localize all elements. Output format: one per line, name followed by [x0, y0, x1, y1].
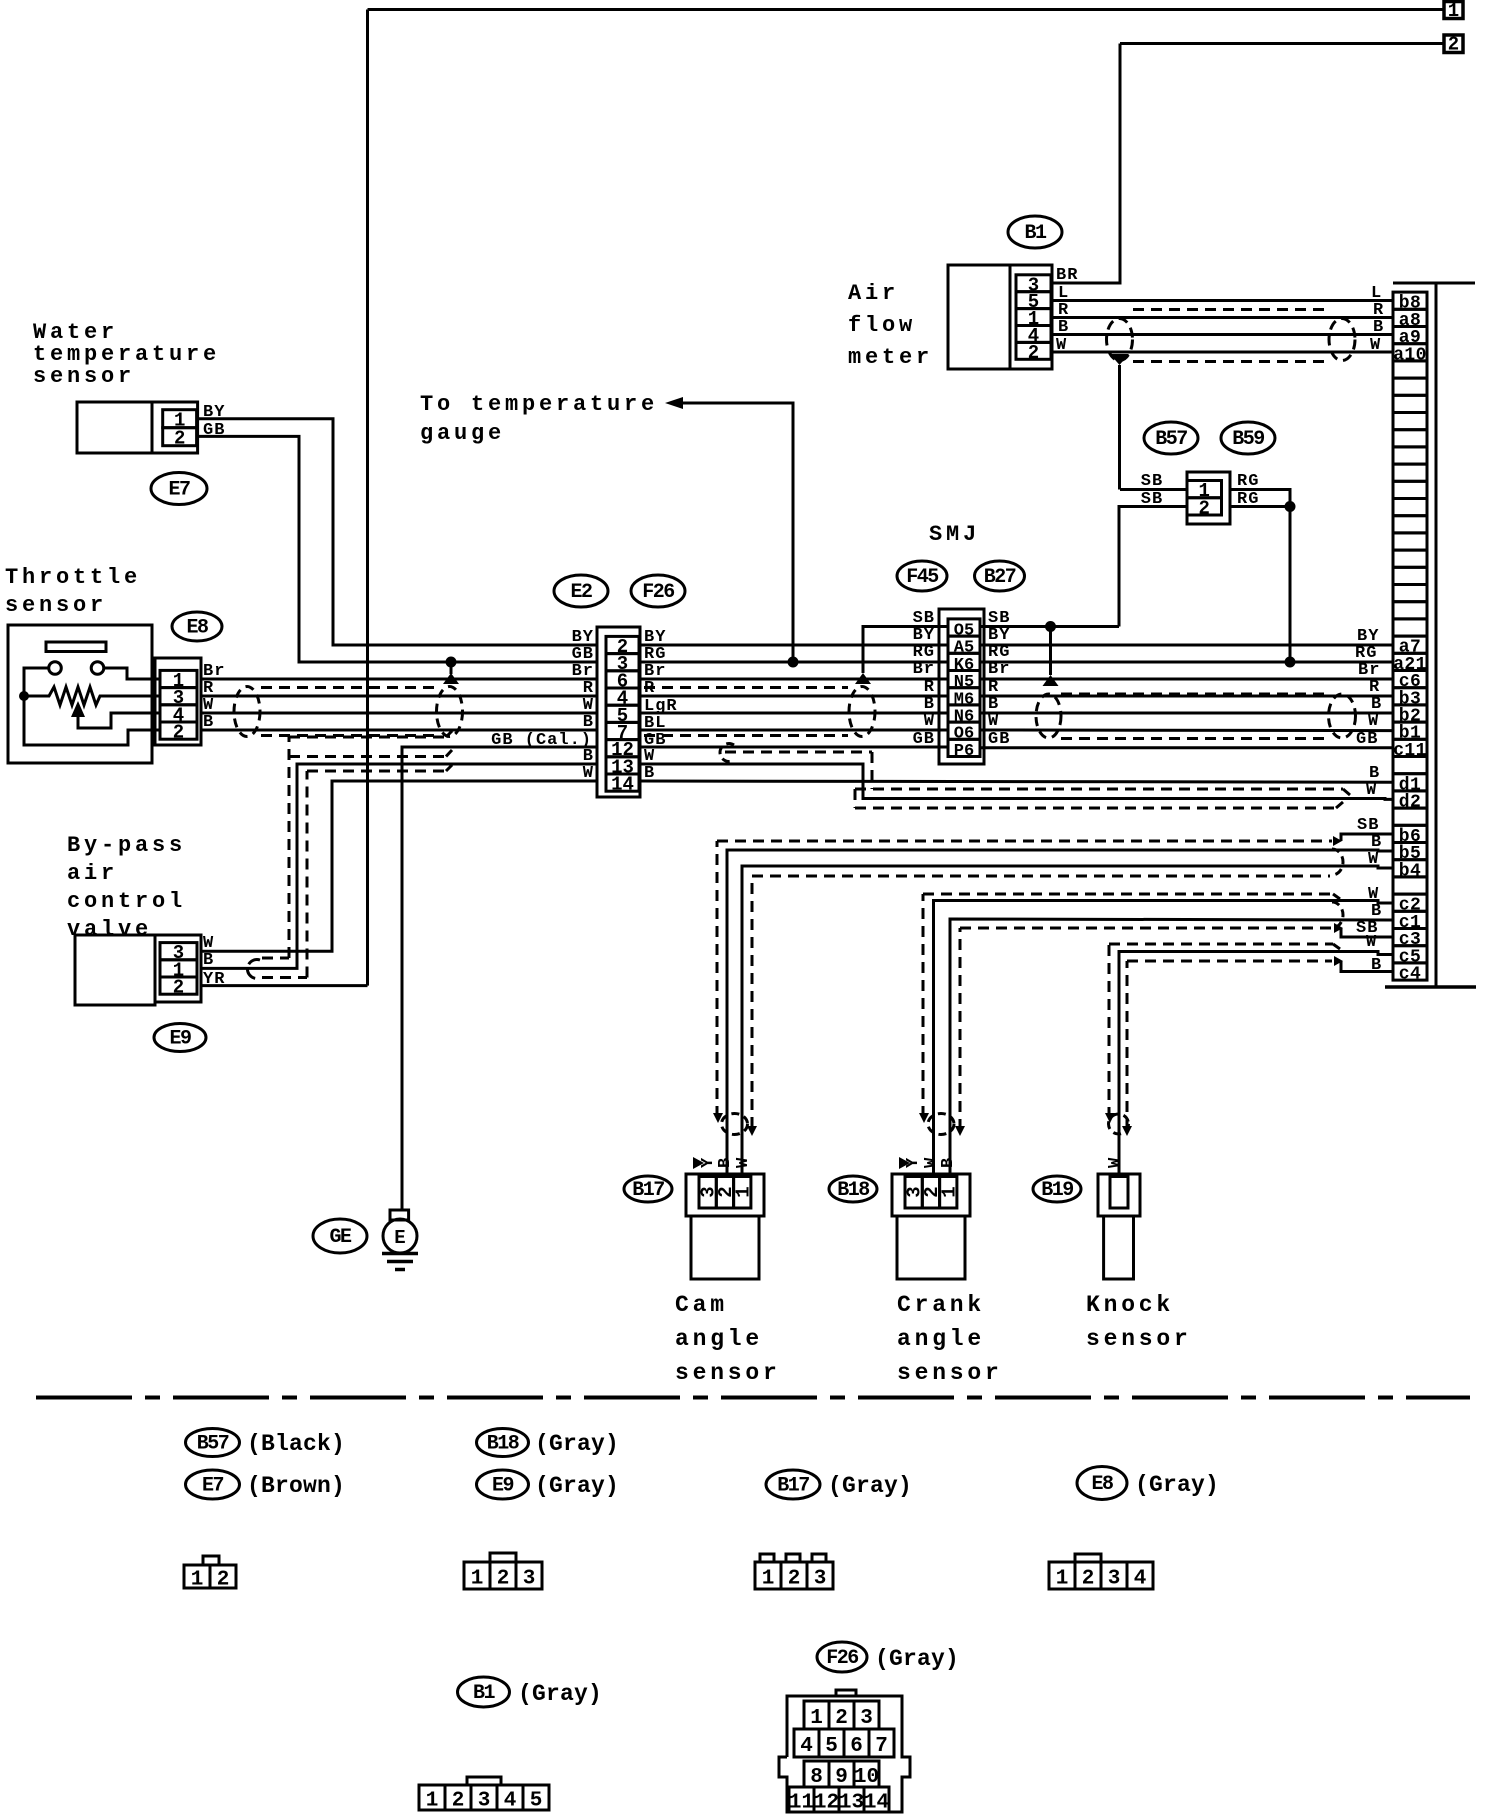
- svg-text:W: W: [1056, 336, 1067, 355]
- svg-text:BY: BY: [203, 403, 225, 422]
- svg-text:angle: angle: [675, 1326, 763, 1352]
- svg-text:(Gray): (Gray): [535, 1473, 619, 1499]
- svg-text:2: 2: [452, 1790, 465, 1813]
- wire BY E2 to SMJ A5: [640, 644, 948, 647]
- svg-text:1: 1: [810, 1707, 823, 1730]
- SMJ pins O5 A5 K6 N5 M6 N6 O6 P6: [948, 619, 980, 636]
- shield ellipse before E2: [437, 687, 463, 737]
- crank Y stub arrow: [899, 1157, 910, 1169]
- svg-text:sensor: sensor: [897, 1360, 1003, 1386]
- shield drain triangle and junction at GB: [446, 657, 457, 668]
- connector oval B59: [1221, 422, 1275, 454]
- SMJ right shield drain: [1049, 627, 1052, 676]
- shield arc at ECU end crank: [1332, 902, 1343, 928]
- svg-text:5: 5: [825, 1735, 838, 1758]
- shield dash cam sensor to ECU b6: [716, 841, 719, 1117]
- svg-text:W: W: [988, 712, 999, 731]
- svg-text:2: 2: [173, 977, 184, 999]
- connector oval F26: [631, 575, 685, 607]
- connector oval B57: [1144, 422, 1198, 454]
- svg-text:7: 7: [875, 1735, 888, 1758]
- wire B valve pin1 to E2 pin 13: [201, 764, 597, 968]
- svg-text:E9: E9: [492, 1475, 514, 1498]
- wire RG from joint pin 2: [1230, 505, 1290, 508]
- svg-text:Cam: Cam: [675, 1292, 728, 1318]
- wire RG SMJ to ECU a21: [980, 661, 1393, 664]
- cam Y stub arrow: [693, 1157, 704, 1169]
- legend connector B17 pins 1 2 3: [760, 1554, 774, 1562]
- svg-text:SMJ: SMJ: [929, 522, 980, 547]
- connector oval E8: [172, 612, 222, 641]
- svg-text:gauge: gauge: [420, 421, 505, 446]
- svg-text:W: W: [734, 1157, 753, 1168]
- legend connector E9 pins 1 2 3: [490, 1553, 516, 1562]
- svg-text:(Gray): (Gray): [1135, 1472, 1219, 1498]
- connector oval GE: [313, 1219, 367, 1253]
- shield arrow into c4: [1334, 956, 1343, 966]
- connector oval B18: [829, 1176, 877, 1202]
- wire Br throttle to E2 pin 6: [201, 678, 597, 681]
- cam angle sensor body: [691, 1216, 759, 1279]
- wire W throttle to E2 pin 5: [201, 712, 597, 715]
- svg-text:2: 2: [173, 722, 184, 744]
- svg-text:F26: F26: [826, 1647, 858, 1670]
- legend oval B17: [766, 1470, 820, 1499]
- svg-text:Crank: Crank: [897, 1292, 985, 1318]
- wire BR vertical (air flow meter pin 3 to line 2): [1052, 44, 1120, 284]
- separator line: [36, 1396, 1470, 1400]
- svg-text:2: 2: [788, 1568, 801, 1591]
- svg-text:2: 2: [1082, 1568, 1095, 1591]
- svg-text:3: 3: [814, 1568, 827, 1591]
- shield dashes around valve B wire: [262, 957, 289, 960]
- legend oval E8: [1077, 1467, 1127, 1500]
- svg-text:E8: E8: [1091, 1473, 1113, 1496]
- legend connector F26 grid: [779, 1696, 910, 1812]
- svg-text:W: W: [1370, 336, 1381, 355]
- legend oval E9: [477, 1470, 529, 1499]
- shield end ticks near E2: [446, 731, 452, 737]
- svg-text:3: 3: [478, 1790, 491, 1813]
- wire B E2 to SMJ N6: [640, 712, 948, 715]
- by-pass valve body: [75, 935, 155, 1005]
- shield dashes around valve W wire: [262, 976, 307, 979]
- svg-text:sensor: sensor: [33, 364, 135, 389]
- svg-text:3: 3: [1108, 1568, 1121, 1591]
- wire GB from water temp pin 2 to E2 pin 3: [198, 436, 597, 662]
- svg-text:Br: Br: [913, 660, 935, 679]
- svg-text:2: 2: [1448, 34, 1459, 56]
- svg-text:B18: B18: [487, 1433, 519, 1456]
- svg-text:A5: A5: [954, 639, 974, 658]
- wire W crank pin2 to ECU c2: [934, 901, 1394, 1177]
- svg-text:12: 12: [814, 1792, 839, 1814]
- svg-text:W: W: [1106, 1157, 1125, 1168]
- joint connector B57/B59 body: [1187, 472, 1230, 524]
- shield ellipse after SMJ: [1036, 694, 1061, 738]
- shield dash crank bottom to ECU c3 SB: [959, 928, 962, 1130]
- svg-text:(Gray): (Gray): [518, 1681, 602, 1707]
- svg-text:(Brown): (Brown): [247, 1473, 345, 1499]
- throttle sensor contact circles: [49, 662, 62, 675]
- ECU connector strip: [1393, 292, 1427, 309]
- svg-text:(Gray): (Gray): [535, 1431, 619, 1457]
- svg-text:GB: GB: [913, 730, 935, 749]
- wire RG E2 to SMJ K6: [640, 661, 948, 664]
- svg-text:B1: B1: [1024, 222, 1047, 245]
- knock sensor connector: [1098, 1174, 1140, 1216]
- svg-text:SB: SB: [1141, 472, 1163, 491]
- wire Br E2 to SMJ N5: [640, 678, 948, 681]
- svg-text:1: 1: [1448, 0, 1459, 22]
- svg-text:F26: F26: [642, 581, 674, 604]
- wire B cam pin2 to ECU b5: [727, 850, 1393, 1176]
- svg-text:RG: RG: [1237, 472, 1259, 491]
- svg-text:1: 1: [426, 1790, 439, 1813]
- svg-text:air: air: [67, 861, 118, 886]
- svg-text:1: 1: [732, 1186, 754, 1197]
- wire W E2 to SMJ O6: [640, 729, 948, 732]
- by-pass valve connector housing: [155, 935, 201, 1002]
- svg-text:W: W: [1368, 712, 1379, 731]
- svg-text:1: 1: [191, 1569, 204, 1592]
- terminal box 1: [1444, 2, 1463, 19]
- svg-text:sensor: sensor: [675, 1360, 781, 1386]
- wire R throttle to E2 pin 4: [201, 695, 597, 698]
- shield drain triangle to B57: [1110, 354, 1129, 365]
- SMJ connector body: [939, 609, 984, 764]
- wire L from pin 5 to ECU b8: [1052, 299, 1393, 302]
- svg-text:(Black): (Black): [247, 1431, 345, 1457]
- wire W cam pin1 to ECU b4: [742, 866, 1393, 1176]
- terminal box 2: [1444, 35, 1463, 53]
- shield dash knock bottom to ECU c4: [1126, 961, 1129, 1130]
- junction RG to a21 wire: [1285, 657, 1296, 668]
- svg-text:control: control: [67, 889, 186, 914]
- svg-text:1: 1: [471, 1568, 484, 1591]
- legend oval B1: [458, 1677, 510, 1707]
- svg-text:B: B: [939, 1157, 958, 1168]
- legend oval F26: [817, 1642, 867, 1672]
- shield arrow into b6: [1333, 836, 1342, 846]
- svg-text:E9: E9: [169, 1028, 191, 1051]
- shield ellipse before SMJ: [849, 687, 875, 737]
- water temperature sensor body: [77, 402, 198, 453]
- svg-text:E8: E8: [186, 617, 208, 640]
- svg-text:angle: angle: [897, 1326, 985, 1352]
- legend connector E8 pins 1 2 3 4: [1075, 1554, 1101, 1562]
- shield dashes E2 to SMJ: [644, 686, 848, 689]
- svg-text:E2: E2: [570, 581, 592, 604]
- connector E2/F26 pins: [606, 636, 639, 653]
- svg-text:1: 1: [1056, 1568, 1069, 1591]
- svg-text:E7: E7: [168, 479, 190, 502]
- svg-text:M6: M6: [954, 690, 974, 709]
- wire B SMJ to ECU b2: [980, 712, 1393, 715]
- legend oval B18: [477, 1429, 529, 1457]
- svg-text:sensor: sensor: [5, 593, 107, 618]
- svg-text:3: 3: [860, 1707, 873, 1730]
- svg-text:B: B: [1373, 318, 1384, 337]
- shield dashes SMJ to ECU: [1061, 693, 1330, 696]
- svg-text:B: B: [1369, 764, 1380, 783]
- wire BY from water temp pin 1 to E2 pin 2: [198, 419, 597, 645]
- legend connector B1 pins 1 2 3 4 5: [467, 1777, 501, 1785]
- throttle connector housing: [155, 658, 201, 745]
- connector oval B19: [1033, 1176, 1081, 1202]
- svg-text:B: B: [583, 713, 594, 732]
- wire GB E2 to SMJ P6: [640, 746, 948, 749]
- svg-text:11: 11: [789, 1792, 814, 1814]
- shield arrow into c3: [1334, 923, 1343, 933]
- wire SB to joint pin 1: [1120, 488, 1187, 491]
- throttle internal junction: [19, 691, 29, 701]
- junction RG pins: [1285, 501, 1296, 512]
- air flow meter body: [948, 265, 1052, 369]
- wire BY SMJ to ECU a7: [980, 644, 1393, 647]
- wire RG from joint pin 1: [1230, 490, 1290, 663]
- svg-text:E: E: [394, 1227, 405, 1249]
- svg-text:B57: B57: [1155, 428, 1187, 451]
- svg-text:4: 4: [504, 1790, 517, 1813]
- svg-text:B27: B27: [984, 566, 1016, 589]
- svg-text:E7: E7: [202, 1475, 224, 1498]
- crank angle sensor connector: [892, 1174, 970, 1216]
- wire B crank pin1 to ECU c1: [950, 919, 1393, 1176]
- svg-text:Knock: Knock: [1086, 1292, 1174, 1318]
- wire to connector 2 (line from air flow meter BR): [1120, 42, 1444, 45]
- water temperature sensor pins 1 2: [163, 410, 197, 428]
- throttle sensor body: [8, 625, 152, 763]
- crank shield arrows and ellipse: [919, 1113, 929, 1123]
- cam shield arrows and ellipse: [713, 1113, 723, 1123]
- svg-text:GE: GE: [329, 1226, 352, 1249]
- connector oval E9: [154, 1024, 206, 1052]
- ECU connector border: [1393, 282, 1475, 285]
- knock sensor body: [1104, 1216, 1134, 1279]
- svg-text:3: 3: [523, 1568, 536, 1591]
- wire to connector 1 (top line from by-pass valve YR): [368, 8, 1445, 11]
- wire B from pin 4 to ECU a9: [1052, 333, 1393, 336]
- svg-text:BR: BR: [1056, 266, 1078, 285]
- wire B E2 pin14 to ECU d1: [640, 781, 1393, 782]
- svg-text:sensor: sensor: [1086, 1326, 1192, 1352]
- junction SB shield drain: [1045, 621, 1056, 632]
- connector oval F45: [897, 561, 947, 591]
- wire W valve pin3 to E2 pin 14: [201, 781, 597, 951]
- throttle wiper arrow: [71, 701, 85, 717]
- knock shield arrows and ellipse: [1105, 1113, 1115, 1123]
- svg-text:N6: N6: [954, 708, 974, 727]
- legend oval E7: [186, 1470, 240, 1499]
- svg-text:B17: B17: [777, 1475, 809, 1498]
- svg-text:2: 2: [1199, 497, 1210, 519]
- svg-text:2: 2: [174, 428, 185, 450]
- connector oval B1: [1008, 216, 1062, 248]
- svg-text:valve: valve: [67, 917, 152, 942]
- svg-text:B59: B59: [1232, 428, 1264, 451]
- svg-text:W: W: [924, 712, 935, 731]
- svg-text:5: 5: [530, 1790, 543, 1813]
- temperature gauge arrowhead: [665, 397, 683, 409]
- wire tap to temperature gauge from RG: [682, 403, 793, 662]
- svg-text:B: B: [1058, 318, 1069, 337]
- svg-text:F45: F45: [906, 566, 938, 589]
- svg-text:4: 4: [1134, 1568, 1147, 1591]
- svg-text:O6: O6: [954, 725, 974, 744]
- wire SB SMJ O5 to joint connector: [980, 625, 1119, 628]
- shield dashes around d2 wire: [725, 751, 872, 754]
- wire SB from joint pin 2 to SMJ shield node: [1119, 507, 1187, 627]
- wire W from pin 2 to ECU a10: [1052, 351, 1393, 354]
- svg-text:flow: flow: [848, 313, 916, 338]
- svg-text:GB: GB: [988, 730, 1010, 749]
- wire W knock to ECU c5: [1119, 952, 1393, 1177]
- wire B throttle to E2 pin 7: [201, 729, 597, 732]
- wire R from pin 1 to ECU a8: [1052, 316, 1393, 319]
- cam angle sensor connector: [686, 1174, 764, 1216]
- shield end ticks near d2: [1343, 789, 1350, 795]
- wire R SMJ to ECU b3: [980, 695, 1393, 698]
- svg-text:W: W: [1366, 781, 1377, 800]
- wire GB(Cal.) E2 pin 12 to ground: [402, 747, 597, 1210]
- shield ellipse near throttle: [234, 687, 260, 737]
- svg-text:N5: N5: [954, 673, 974, 692]
- svg-text:GB: GB: [1356, 730, 1378, 749]
- svg-text:Br: Br: [988, 660, 1010, 679]
- shield around air flow meter wires: [1133, 308, 1330, 311]
- shield dash cam bottom: [751, 876, 754, 1128]
- junction temperature gauge tap on RG: [788, 657, 799, 668]
- shield dashes throttle to E2: [261, 686, 436, 689]
- ground symbol E: [390, 1210, 409, 1220]
- connector oval B17: [624, 1176, 672, 1202]
- svg-text:B57: B57: [197, 1433, 229, 1456]
- wire YR valve pin2 to top line: [201, 984, 368, 987]
- svg-text:B: B: [716, 1157, 735, 1168]
- shield dash crank sensor top: [922, 894, 925, 1117]
- svg-text:1: 1: [762, 1568, 775, 1591]
- throttle internal wire to pin 2: [24, 668, 160, 745]
- svg-text:P6: P6: [954, 742, 974, 761]
- svg-text:To temperature: To temperature: [420, 392, 658, 417]
- svg-text:(Gray): (Gray): [828, 1473, 912, 1499]
- by-pass valve pins 3 1 2: [160, 943, 197, 960]
- connector oval E7: [151, 473, 207, 505]
- svg-text:(Gray): (Gray): [875, 1646, 959, 1672]
- shield arc at ECU end cam: [1332, 849, 1343, 875]
- connector oval E2: [554, 575, 608, 607]
- svg-text:2: 2: [835, 1707, 848, 1730]
- svg-text:14: 14: [864, 1792, 889, 1814]
- legend oval B57: [186, 1429, 240, 1457]
- crank angle sensor body: [897, 1216, 965, 1279]
- wire R E2 to SMJ M6: [640, 695, 948, 698]
- svg-text:By-pass: By-pass: [67, 833, 186, 858]
- connector E2/F26 body: [597, 627, 640, 797]
- throttle sensor slider bar: [46, 642, 106, 652]
- wire Br SMJ to ECU c6: [980, 678, 1393, 681]
- air flow meter connector pins 3 5 1 4 2: [1016, 275, 1051, 292]
- svg-text:K6: K6: [954, 656, 974, 675]
- throttle potentiometer resistor: [24, 687, 160, 705]
- throttle internal wire right circle to pin 1: [104, 668, 160, 679]
- svg-text:O5: O5: [954, 622, 974, 641]
- svg-text:B: B: [1371, 956, 1382, 975]
- svg-text:13: 13: [839, 1792, 864, 1814]
- svg-text:2: 2: [217, 1569, 230, 1592]
- svg-text:c4: c4: [1399, 965, 1421, 985]
- throttle connector pins 1 3 4 2: [160, 670, 197, 687]
- svg-text:Throttle: Throttle: [5, 565, 141, 590]
- svg-text:2: 2: [497, 1568, 510, 1591]
- wire W SMJ to ECU b1: [980, 729, 1393, 733]
- svg-text:B18: B18: [837, 1179, 869, 1202]
- svg-text:meter: meter: [848, 345, 933, 370]
- svg-text:6: 6: [850, 1735, 863, 1758]
- shield dash knock top: [1108, 944, 1111, 1118]
- svg-text:14: 14: [611, 774, 634, 796]
- svg-text:Air: Air: [848, 281, 899, 306]
- svg-text:GB: GB: [203, 421, 225, 440]
- svg-text:W: W: [1368, 850, 1379, 869]
- SMJ left shield drain SB: [863, 627, 948, 674]
- svg-text:B19: B19: [1041, 1179, 1073, 1202]
- wire W E2 pin13 to ECU d2: [640, 764, 1393, 799]
- svg-text:2: 2: [1028, 342, 1039, 364]
- svg-text:B17: B17: [632, 1179, 664, 1202]
- svg-text:W: W: [1366, 933, 1377, 952]
- shield hook C near valve: [247, 960, 260, 979]
- wire GB SMJ to ECU c11: [980, 746, 1393, 749]
- connector oval B27: [975, 561, 1025, 591]
- svg-text:4: 4: [800, 1735, 813, 1758]
- svg-text:SB: SB: [1141, 490, 1163, 509]
- svg-text:B1: B1: [473, 1682, 496, 1705]
- legend connector E7 pins 1 2: [203, 1556, 219, 1565]
- shield ellipse before ECU: [1329, 694, 1356, 738]
- wire YR vertical from by-pass valve pin 2 to top line: [366, 10, 369, 986]
- svg-text:1: 1: [938, 1186, 960, 1197]
